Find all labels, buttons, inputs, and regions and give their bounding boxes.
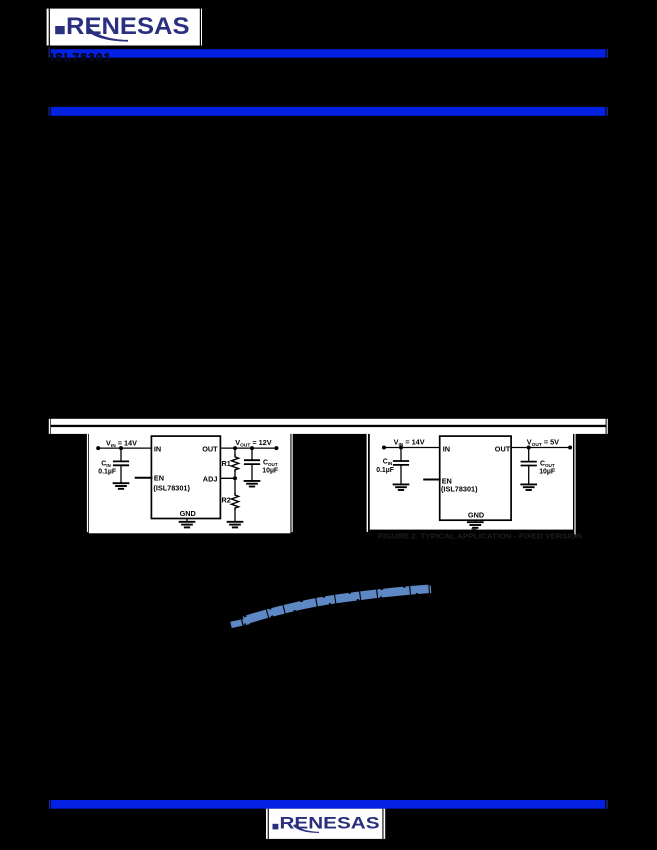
resistor R1: [231, 455, 238, 471]
node VIN terminal dot: [96, 446, 100, 450]
header bar (blue): [51, 49, 606, 58]
capacitor CIN2 lead lower: [400, 465, 402, 485]
wire ADJ to divider: [220, 477, 235, 479]
ground below R2: [228, 522, 243, 528]
capacitor COUT lead lower: [251, 464, 253, 481]
node VOUT terminal dot: [274, 446, 278, 450]
Renesas logo square dot (bottom): [273, 824, 279, 830]
ground below CIN: [114, 483, 129, 489]
regulator U2 ISL78301 body: [440, 436, 511, 520]
svg-text:OUT: OUT: [495, 444, 511, 453]
ground below U2: [468, 522, 483, 528]
svg-text:10µF: 10µF: [262, 468, 278, 475]
footer bar right tick: [606, 800, 607, 809]
wire VIN to IN pin: [384, 447, 440, 449]
figure 2 right frame line: [574, 433, 575, 536]
capacitor COUT lead upper: [251, 448, 253, 460]
Renesas logo R swoosh (top): [86, 28, 128, 42]
wire OUT rail: [220, 447, 276, 449]
svg-text:(ISL78301): (ISL78301): [153, 483, 190, 492]
svg-text:0.1µF: 0.1µF: [376, 467, 394, 474]
svg-text:R1: R1: [222, 459, 231, 468]
capacitor COUT plates: [245, 460, 259, 464]
ground below CIN2: [394, 484, 409, 490]
wire OUT rail: [511, 447, 570, 449]
svg-text:R2: R2: [222, 496, 231, 505]
svg-text:VOUT = 5V: VOUT = 5V: [527, 438, 559, 449]
svg-text:VIN = 14V: VIN = 14V: [394, 438, 425, 449]
figure 2 left frame line: [367, 433, 368, 532]
Renesas logo R swoosh (bottom): [293, 824, 319, 833]
node COUT junction dot: [250, 446, 254, 450]
svg-text:ISL78301: ISL78301: [51, 52, 112, 64]
svg-text:10µF: 10µF: [539, 469, 555, 476]
header bar left tick: [49, 47, 50, 58]
svg-text:IN: IN: [443, 444, 450, 453]
bottom logo white plate: [266, 809, 385, 839]
wire VIN to IN pin: [98, 447, 151, 449]
capacitor COUT2 lead upper: [528, 448, 530, 462]
node CIN junction dot: [119, 446, 123, 450]
capacitor CIN lead upper: [120, 448, 122, 461]
node VOUT terminal dot: [568, 446, 572, 450]
figure 1 white panel: [89, 433, 291, 533]
svg-text:GND: GND: [180, 509, 196, 518]
wire GND pin: [474, 520, 476, 522]
mid section white double rule left tick: [49, 419, 50, 434]
ground below U1: [180, 522, 195, 528]
svg-text:ADJ: ADJ: [203, 475, 218, 484]
resistor R2 lead lower: [234, 509, 236, 521]
node VIN terminal dot: [382, 446, 386, 450]
op-amp regulator U1 ISL78301 body: [151, 436, 220, 518]
blue data curve bottom edge notches: [244, 593, 431, 625]
figure 1 left frame line: [87, 433, 88, 532]
second header rule (blue) left tick: [49, 107, 50, 116]
capacitor CIN2 plates: [394, 461, 408, 465]
bottom logo plate left border line: [268, 809, 269, 839]
capacitor CIN lead lower: [120, 465, 122, 483]
node COUT junction dot: [527, 446, 531, 450]
second header rule (blue): [51, 107, 606, 116]
top logo plate left border line: [49, 9, 50, 46]
resistor R1 lead lower: [234, 471, 236, 478]
blue data curve top edge notches: [244, 585, 431, 617]
svg-text:RENESAS: RENESAS: [66, 13, 190, 40]
ground below COUT: [245, 481, 260, 487]
mid section white double rule upper band: [51, 419, 606, 425]
capacitor COUT2 lead lower: [528, 466, 530, 485]
node ADJ junction dot: [233, 476, 237, 480]
mid section white double rule lower band: [51, 427, 606, 434]
second header rule right tick: [607, 107, 608, 116]
wire GND pin: [186, 519, 188, 522]
EN pin stub wire: [136, 477, 152, 479]
svg-text:OUT: OUT: [202, 445, 218, 454]
top logo white plate: [47, 9, 202, 46]
ground below COUT2: [521, 484, 536, 490]
bottom logo plate right border line: [382, 809, 383, 839]
EN pin stub wire: [424, 479, 440, 481]
resistor R1 lead upper: [234, 448, 236, 455]
figure 1 right frame line: [292, 433, 293, 532]
svg-text:GND: GND: [468, 511, 484, 520]
capacitor CIN2 lead upper: [400, 448, 402, 462]
node R1 junction dot: [233, 446, 237, 450]
resistor R2: [231, 493, 238, 509]
figure 2 white panel: [370, 433, 573, 529]
svg-text:RENESAS: RENESAS: [280, 814, 380, 833]
faint caption artifact dot: [472, 528, 477, 530]
svg-text:IN: IN: [154, 445, 161, 454]
svg-text:(ISL78301): (ISL78301): [441, 485, 478, 494]
svg-text:FIGURE 2. TYPICAL APPLICATION: FIGURE 2. TYPICAL APPLICATION - FIXED VE…: [378, 532, 582, 541]
Renesas logo square dot (top): [55, 26, 64, 34]
footer bar (blue): [51, 800, 605, 809]
header bar right tick: [607, 49, 608, 58]
capacitor CIN plates: [114, 461, 128, 465]
svg-text:0.1µF: 0.1µF: [98, 468, 116, 475]
top logo plate right border line: [200, 9, 201, 46]
capacitor COUT2 plates: [522, 462, 536, 466]
resistor R2 lead upper: [234, 478, 236, 493]
footer bar left tick: [49, 800, 50, 809]
mid section white double rule right tick: [607, 419, 608, 434]
blue data curve (dropout plot trace): [244, 589, 431, 621]
svg-text:EN: EN: [154, 474, 164, 483]
node CIN junction dot: [399, 446, 403, 450]
blue data curve left step segment: [231, 621, 249, 625]
